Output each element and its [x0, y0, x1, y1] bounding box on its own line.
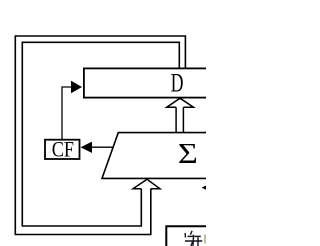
hollow arrowhead: bus into ALU bottom input — [133, 179, 160, 189]
wire: ALU carry out to CF — [92, 146, 113, 148]
wire: inner feedback bus loop (D top -> left side -> bottom -> ALU input shaft left line) — [22, 42, 179, 226]
hollow arrow: ALU output up into D register (shaft) — [176, 107, 183, 132]
label 选 (hand-drawn strokes, top part visible) — [185, 231, 202, 246]
ALU adder trapezoid — [102, 133, 210, 179]
svg-text:CF: CF — [52, 137, 74, 162]
arrowhead: wire at right edge pointing left (cut off) — [202, 185, 208, 190]
arrowhead: into CF right edge — [81, 142, 93, 153]
svg-text:D: D — [171, 69, 184, 98]
wire: outer feedback bus loop (D top -> left side -> bottom -> ALU input shaft right line) — [15, 36, 185, 235]
arrowhead: into D register left edge — [71, 81, 82, 94]
carry flag CF box — [45, 140, 80, 159]
selector box (top-left corner, cut off at image edge) — [166, 226, 210, 246]
register D box — [84, 68, 214, 97]
svg-text:Σ: Σ — [178, 138, 198, 170]
label second character fragment at image edge — [204, 235, 206, 244]
hollow arrow: ALU output up into D register (head) — [167, 98, 194, 107]
wire: CF output up and right to D register — [62, 87, 72, 140]
